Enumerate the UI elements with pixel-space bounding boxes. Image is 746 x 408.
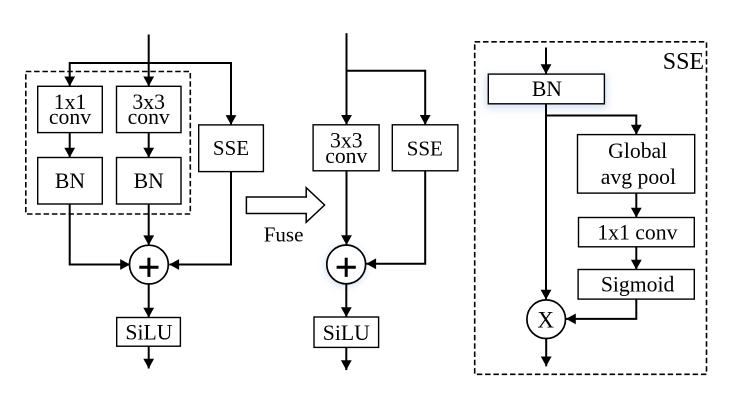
- wire: SSE panel output arrow: [545, 339, 547, 367]
- box: SSE (middle): [392, 125, 458, 171]
- node: plus circle (left): [130, 245, 169, 284]
- wire: 1x1 conv to BN: [69, 133, 71, 158]
- svg-text:1x1 conv: 1x1 conv: [597, 221, 677, 245]
- box: 1x1 conv (SSE panel): [579, 218, 695, 247]
- dashed container box right: [475, 42, 707, 375]
- wire: middle output arrow: [345, 347, 347, 370]
- wire: branch down into SSE (middle): [424, 70, 426, 125]
- wire: branch horizontal (middle): [347, 70, 426, 72]
- svg-text:avg pool: avg pool: [601, 165, 676, 189]
- box: BN (SSE panel): [488, 74, 604, 104]
- box: 3x3 conv (left): [117, 86, 182, 132]
- svg-text:BN: BN: [134, 169, 164, 193]
- wire: conv to plus (middle): [346, 171, 348, 245]
- wire: BN down into X circle: [545, 104, 547, 300]
- wire: plus to SiLU (middle): [345, 284, 347, 317]
- wire: 3x3 conv to BN: [148, 133, 150, 158]
- svg-text:BN: BN: [532, 77, 562, 101]
- svg-text:SiLU: SiLU: [323, 321, 370, 345]
- svg-text:SSE: SSE: [213, 136, 249, 160]
- svg-text:BN: BN: [55, 169, 85, 193]
- svg-text:X: X: [537, 308, 554, 333]
- box: Global avg pool: [578, 135, 695, 194]
- wire: 1x1 conv to Sigmoid: [635, 247, 637, 270]
- wire: branch down into SSE box: [230, 62, 232, 125]
- wire: SSE down and left into plus: [169, 172, 231, 265]
- wire: branch down into 1x1 conv: [69, 62, 71, 86]
- wire: plus to SiLU: [148, 284, 150, 318]
- svg-text:SSE: SSE: [663, 49, 704, 75]
- svg-text:conv: conv: [325, 144, 367, 168]
- wire: input vertical into 3x3 conv (middle): [346, 33, 348, 125]
- svg-text:SiLU: SiLU: [125, 321, 172, 345]
- svg-text:SSE: SSE: [407, 137, 443, 161]
- svg-text:conv: conv: [128, 105, 170, 129]
- box: 1x1 conv: [38, 86, 103, 132]
- glow behind BN box of SSE panel: [485, 75, 607, 109]
- wire: left output arrow: [148, 346, 150, 368]
- svg-text:Fuse: Fuse: [264, 222, 304, 246]
- node: plus circle (middle): [327, 245, 366, 284]
- wire: top horizontal branch: [70, 62, 231, 64]
- wire: branch right to Global avg pool: [546, 116, 636, 135]
- wire: Global avg pool to 1x1 conv: [635, 193, 637, 217]
- node: X multiply circle: [527, 300, 566, 339]
- box: Sigmoid: [578, 270, 694, 300]
- box: BN (left-right): [117, 158, 182, 205]
- box: SiLU (middle): [314, 317, 379, 347]
- wire: input into BN: [545, 48, 547, 75]
- box: 3x3 conv (middle): [313, 125, 379, 171]
- block arrow: Fuse: [246, 188, 324, 247]
- dashed container box left: [26, 72, 191, 215]
- box: SSE (left diagram): [199, 125, 264, 172]
- svg-text:Global: Global: [608, 139, 667, 163]
- wire: input vertical into 3x3 conv: [148, 35, 150, 87]
- wire: Sigmoid down and left into X circle: [566, 299, 636, 319]
- box: SiLU (left): [117, 318, 181, 347]
- wire: SSE down and left into plus (middle): [366, 171, 425, 264]
- wire: BN2 down into plus: [148, 204, 150, 245]
- svg-text:conv: conv: [49, 105, 91, 129]
- wire: BN1 down and right into plus: [70, 204, 130, 265]
- box: BN (left-left): [38, 158, 103, 205]
- glow behind middle plus circle: [325, 246, 366, 287]
- svg-text:Sigmoid: Sigmoid: [601, 273, 675, 297]
